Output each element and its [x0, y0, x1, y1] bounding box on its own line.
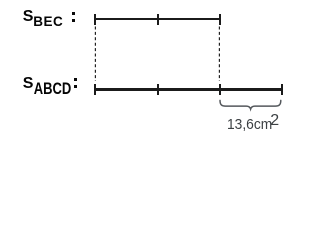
bottom bar tick 1 [94, 84, 96, 95]
top bar tick right [219, 14, 221, 25]
bottom bar tick 4 [281, 84, 283, 95]
label S_ABCD : colon upper dot [74, 78, 76, 81]
label S_BEC : colon upper dot [72, 12, 75, 15]
bottom bar tick 2 [157, 84, 159, 95]
area value label 13,6cm [227, 117, 272, 132]
brace under last segment [218, 99, 284, 112]
label S_ABCD : main S [23, 76, 34, 92]
label S_BEC : main S [23, 9, 34, 25]
dashed line left [94, 26, 97, 81]
label S_BEC : colon lower dot [72, 19, 75, 22]
label S_BEC : subscript BEC [33, 15, 63, 29]
top bar S_BEC segment [95, 18, 221, 21]
label S_ABCD : colon lower dot [74, 85, 76, 88]
top bar tick left [94, 14, 96, 25]
label S_ABCD : subscript ABCD [34, 80, 72, 97]
top bar tick middle [157, 14, 159, 25]
dashed line right [218, 26, 221, 81]
area value superscript 2 [270, 113, 279, 129]
bottom bar S_ABCD segment [95, 88, 282, 91]
bottom bar tick 3 [219, 84, 221, 95]
